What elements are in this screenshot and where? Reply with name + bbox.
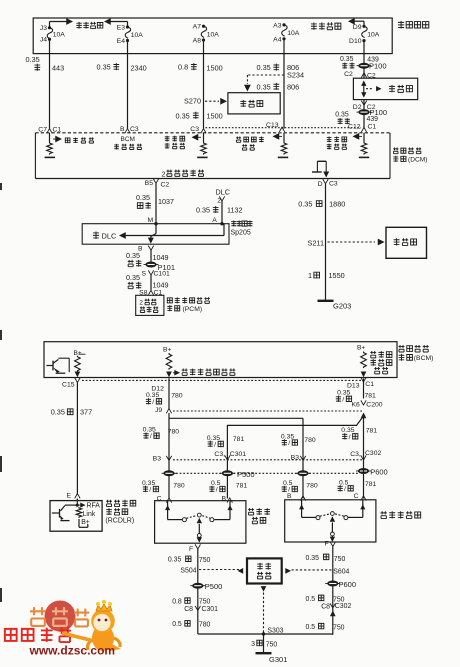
svg-text:C3: C3 bbox=[130, 126, 139, 133]
watermark orange arrow/pen bbox=[62, 633, 121, 651]
svg-text:0.8: 0.8 bbox=[178, 63, 188, 72]
wire from box to P100 lower bbox=[363, 100, 365, 129]
svg-text:J9: J9 bbox=[155, 407, 162, 414]
svg-text:750: 750 bbox=[266, 641, 278, 648]
svg-text:(RCDLR): (RCDLR) bbox=[105, 518, 134, 525]
BCM label 车身电控单元(DCM) bbox=[393, 147, 427, 163]
svg-text:780: 780 bbox=[173, 483, 185, 490]
pin E bbox=[67, 492, 81, 499]
svg-text:C2: C2 bbox=[344, 71, 353, 78]
svg-text:1500: 1500 bbox=[207, 111, 223, 120]
svg-text:A7: A7 bbox=[193, 24, 202, 31]
wire label 0.5黑 780 bbox=[172, 621, 210, 629]
svg-text:G203: G203 bbox=[333, 302, 351, 311]
label 插头组件 Sp205 bbox=[231, 220, 253, 236]
wire label 0.35 深绿 / 1049 (upper) bbox=[126, 251, 169, 267]
svg-text:0.5: 0.5 bbox=[172, 621, 182, 628]
svg-text:10A: 10A bbox=[131, 32, 144, 39]
svg-text:B: B bbox=[120, 126, 125, 133]
svg-text:1500: 1500 bbox=[207, 64, 223, 73]
box 配线图 (S211) bbox=[386, 227, 427, 258]
BCM2 connector row (dashed, below bottom edge) bbox=[82, 379, 361, 381]
pin F (right switch) bbox=[325, 541, 336, 548]
svg-text:0.35: 0.35 bbox=[97, 63, 111, 72]
bottom junction wire (left F to right F) bbox=[198, 633, 333, 635]
svg-text:C12: C12 bbox=[348, 123, 361, 130]
wire to right switch pin C; label 0.5 红/黑 781 bbox=[338, 465, 377, 499]
svg-text:C3: C3 bbox=[329, 181, 338, 188]
dashed vertical to S303 bbox=[263, 593, 265, 634]
pin C3 (connector C302) bbox=[350, 450, 381, 460]
wire label 0.5黑 750 (low) bbox=[306, 623, 345, 631]
arrow: E3 fuse to 至配线图 (left header) bbox=[104, 18, 128, 27]
pin C8 / connector C302 with up arrow bbox=[321, 603, 351, 616]
BCM2 input resistor B+ (车门锁开关输入) bbox=[163, 346, 235, 377]
svg-text:1550: 1550 bbox=[329, 271, 345, 280]
wire to P101 (0.35 深绿 1049) bbox=[150, 250, 152, 262]
svg-text:780: 780 bbox=[304, 437, 316, 444]
watermark mascot bbox=[88, 600, 121, 651]
svg-text:439: 439 bbox=[367, 116, 379, 123]
svg-text:750: 750 bbox=[334, 556, 346, 563]
svg-text:377: 377 bbox=[80, 408, 92, 417]
svg-text:/: / bbox=[150, 433, 152, 440]
splice S504 with dashed line to ground-circuit box bbox=[180, 568, 240, 575]
label 左门锁开关 bbox=[248, 508, 270, 524]
svg-text:E3: E3 bbox=[117, 25, 126, 32]
svg-text:0.35: 0.35 bbox=[126, 251, 140, 260]
BCM input: 点火信号输入 w/ resistor bbox=[165, 133, 208, 158]
svg-text:C3,: C3, bbox=[350, 451, 361, 458]
svg-text:781: 781 bbox=[233, 436, 245, 443]
pin D/C3 bbox=[318, 179, 338, 188]
svg-text:M: M bbox=[148, 217, 154, 224]
svg-text:/: / bbox=[216, 487, 218, 494]
wire label 0.35紫 806 (below S234) bbox=[257, 82, 300, 91]
svg-text:/: / bbox=[152, 399, 154, 406]
svg-text:781: 781 bbox=[365, 393, 377, 400]
wire label 0.8黑 750 bbox=[172, 598, 210, 606]
wire label 0.35 红/黑 780 (below P500) bbox=[142, 480, 185, 494]
svg-text:B+: B+ bbox=[163, 346, 171, 353]
wire label 0.35紫 1500 (lower) bbox=[176, 111, 223, 120]
svg-text:www.dzsc.com: www.dzsc.com bbox=[29, 643, 116, 657]
pins C and B of left switch bbox=[157, 495, 233, 502]
svg-text:0.5: 0.5 bbox=[306, 596, 316, 603]
svg-text:S211: S211 bbox=[308, 238, 325, 247]
svg-text:/: / bbox=[344, 486, 346, 493]
svg-text:C1: C1 bbox=[53, 127, 62, 134]
grommet P600 (bottom) bbox=[325, 580, 356, 589]
svg-text:BCM: BCM bbox=[121, 136, 135, 143]
svg-text:A4: A4 bbox=[273, 36, 282, 43]
svg-text:P600: P600 bbox=[370, 467, 388, 476]
svg-text:C302: C302 bbox=[335, 603, 352, 610]
wire label 1黑 1550 bbox=[308, 271, 345, 280]
box 配线图 (to wiring diagram, S270/S234) bbox=[228, 93, 280, 114]
svg-text:(DCM): (DCM) bbox=[408, 157, 427, 164]
wire label 0.35 橙/黑 781 (x228) bbox=[207, 435, 245, 449]
svg-text:/: / bbox=[214, 441, 216, 448]
svg-text:10A: 10A bbox=[367, 32, 380, 39]
wire label 0.35 粉红 / 439 (lower) bbox=[335, 112, 378, 125]
grommet P500 (x228) bbox=[220, 470, 255, 479]
svg-text:0.35: 0.35 bbox=[136, 193, 150, 202]
connector D2/C2 pins bbox=[353, 101, 376, 111]
label 至配线图 (right) bbox=[311, 22, 341, 29]
label 遥控门模接收器(RCDLR) bbox=[105, 500, 135, 525]
wire B5 to M node (0.35 浅绿 1037) bbox=[155, 184, 157, 224]
splice S211 with dashed arrow to 配线图 bbox=[308, 238, 385, 247]
svg-text:S504: S504 bbox=[180, 568, 196, 575]
svg-text:E: E bbox=[67, 492, 72, 499]
svg-text:750: 750 bbox=[199, 557, 211, 564]
svg-text:750: 750 bbox=[333, 624, 345, 631]
wire to S8 (0.35 深绿 1049 lower) bbox=[150, 275, 152, 290]
svg-text:780: 780 bbox=[199, 622, 211, 629]
grommet P600 (x363) bbox=[356, 467, 388, 476]
pin label D13/C1, 0.35 橙/黑 781 bbox=[336, 377, 376, 403]
pin C15 bbox=[62, 378, 80, 389]
BCM2 internal transistor (C15 driver) bbox=[46, 358, 69, 373]
svg-text:J4: J4 bbox=[40, 37, 47, 44]
branch wire (J9) right to x303 down to right switch pin B bbox=[169, 418, 303, 498]
node M bbox=[148, 217, 158, 226]
grommet row dashed line (P500-P600) bbox=[176, 472, 358, 474]
elbow wire from K6 junction left to x227.4 then down to left switch pin B bbox=[227, 416, 363, 499]
DLC connector pin 2 bbox=[216, 187, 230, 223]
svg-text:780: 780 bbox=[168, 429, 180, 436]
pin S8/C1 bbox=[139, 289, 162, 296]
wire D to ground G203 (0.35黑 1880 / 1黑 1550) bbox=[325, 184, 327, 300]
svg-text:781: 781 bbox=[365, 481, 377, 488]
svg-text:1880: 1880 bbox=[329, 199, 345, 208]
svg-text:780: 780 bbox=[306, 483, 318, 490]
splice S270, dashed arrow to 配线图 box bbox=[184, 97, 227, 106]
svg-text:C3: C3 bbox=[190, 126, 199, 133]
PCM box 2级串行数据 bbox=[136, 295, 164, 315]
svg-text:C302: C302 bbox=[365, 450, 381, 457]
grommet P500 (left wire) bbox=[162, 470, 177, 476]
svg-text:(PCM): (PCM) bbox=[183, 306, 203, 313]
BCM box 2 (车身电控单元 BCM) bbox=[44, 342, 397, 378]
wire D13 to K6 bbox=[363, 378, 365, 398]
wire label 0.35黑 750 (right) bbox=[306, 554, 346, 563]
RCDLR internal transistor bbox=[52, 499, 79, 521]
svg-text:S604: S604 bbox=[333, 568, 349, 575]
svg-text:0.8: 0.8 bbox=[172, 598, 182, 605]
wire: fuse D10 down to P100 / C2 (0.35 粉红 439) bbox=[363, 54, 365, 78]
wire label 0.8紫 1500 (upper) bbox=[178, 63, 223, 73]
svg-text:RFA: RFA bbox=[87, 503, 101, 510]
svg-text:C200: C200 bbox=[366, 401, 382, 408]
node A bbox=[212, 217, 223, 226]
svg-text:750: 750 bbox=[199, 599, 211, 606]
pin C3 (ignition) bbox=[190, 126, 206, 133]
label 右门锁开关 bbox=[381, 511, 421, 518]
connector C301/C302 dashed row bbox=[173, 459, 364, 461]
svg-text:C: C bbox=[354, 493, 359, 500]
svg-text:C13: C13 bbox=[266, 122, 279, 129]
pin B (below 至DLC box) bbox=[138, 246, 154, 253]
svg-text:D13: D13 bbox=[347, 383, 360, 390]
svg-text:0.35: 0.35 bbox=[257, 63, 271, 72]
svg-text:P500: P500 bbox=[237, 470, 255, 479]
label 至DLC with left arrow bbox=[93, 224, 224, 241]
svg-text:1: 1 bbox=[308, 271, 312, 280]
fuse A7/A8 10A bbox=[193, 24, 220, 54]
svg-text:C7: C7 bbox=[38, 127, 47, 134]
svg-text:2: 2 bbox=[139, 300, 143, 307]
svg-text:F: F bbox=[189, 546, 193, 553]
svg-text:F: F bbox=[325, 541, 329, 548]
watermark 维库一下 red text bbox=[5, 627, 71, 642]
svg-text:D10: D10 bbox=[349, 38, 362, 45]
svg-text:2: 2 bbox=[162, 169, 166, 178]
svg-text:10A: 10A bbox=[287, 30, 300, 37]
svg-text:C101: C101 bbox=[154, 270, 170, 277]
svg-text:780: 780 bbox=[171, 393, 183, 400]
svg-text:806: 806 bbox=[287, 82, 299, 91]
grommet P500 (bottom) bbox=[190, 582, 222, 591]
connector S/C101 bbox=[141, 270, 170, 277]
pin B3 (left, connector C301) bbox=[153, 455, 172, 462]
pin K6 / connector C200 bbox=[352, 400, 383, 408]
svg-text:B5: B5 bbox=[145, 180, 154, 187]
fuse J3/J4 10A bbox=[40, 25, 65, 54]
BCM input: 信号输入 w/ resistor bbox=[45, 133, 94, 158]
dashed line to S604 bbox=[292, 569, 332, 571]
wire label 0.35橙 2340 bbox=[97, 63, 147, 73]
pins B and C of right switch bbox=[287, 493, 366, 501]
svg-text:B: B bbox=[287, 493, 292, 500]
svg-text:DLC: DLC bbox=[216, 187, 230, 196]
svg-text:B3: B3 bbox=[291, 454, 300, 461]
svg-text:10A: 10A bbox=[53, 32, 66, 39]
svg-text:0.35: 0.35 bbox=[298, 199, 312, 208]
svg-text:S303: S303 bbox=[267, 627, 283, 634]
svg-text:0.35: 0.35 bbox=[146, 392, 159, 399]
BCM input: BCM供电输入 (down arrow) bbox=[114, 136, 142, 149]
fuse E3/E4 10A bbox=[117, 25, 144, 54]
pin C12/C1 bbox=[348, 123, 376, 132]
svg-text:0.35: 0.35 bbox=[126, 273, 140, 282]
svg-text:C1: C1 bbox=[368, 123, 377, 130]
BCM2 input resistor B+ (车门未锁开关输入) bbox=[357, 345, 392, 378]
svg-text:C15: C15 bbox=[62, 382, 75, 389]
label 至配线图 (left) bbox=[76, 22, 102, 29]
watermark 找芯片 outlined text with red circle bbox=[30, 601, 89, 632]
svg-text:S270: S270 bbox=[184, 97, 201, 106]
wire label 0.35黑 1880 bbox=[298, 199, 345, 208]
svg-text:0.5: 0.5 bbox=[306, 624, 316, 631]
wire label 0.35紫 1132 bbox=[196, 205, 242, 214]
wire label 0.5黑 750 (mid) bbox=[306, 595, 345, 603]
fuse box label 熔断器盒 bbox=[398, 21, 429, 29]
svg-text:0.35: 0.35 bbox=[26, 55, 40, 64]
svg-text:0.35: 0.35 bbox=[168, 557, 182, 564]
splice S303 and wire to G301 (3黑 750) bbox=[251, 627, 284, 652]
svg-text:0.35: 0.35 bbox=[335, 112, 349, 119]
svg-text:1049: 1049 bbox=[153, 281, 169, 290]
svg-text:P600: P600 bbox=[339, 580, 357, 589]
svg-text:D9: D9 bbox=[353, 24, 362, 31]
splice S234, dashed branch down into 配线图 box bbox=[244, 71, 304, 92]
svg-text:Link: Link bbox=[83, 511, 96, 518]
svg-text:C301: C301 bbox=[202, 606, 219, 613]
svg-text:P100: P100 bbox=[369, 62, 387, 71]
left switch internals bbox=[165, 501, 233, 543]
svg-text:0.35: 0.35 bbox=[196, 205, 210, 214]
BCM2 label 车身电控单元(BCM) bbox=[399, 345, 434, 362]
arrow: D9 fuse to 至配线图 (right header) bbox=[348, 18, 364, 26]
wire label 0.35 橙/黑 781 (x363) bbox=[341, 427, 377, 441]
svg-text:/: / bbox=[149, 487, 151, 494]
connector C2/C2 pins bbox=[344, 71, 376, 79]
splice box 至DLC (插头组件 Sp205) bbox=[82, 224, 229, 245]
arrows out of ground-circuit box bbox=[238, 568, 292, 592]
pin B/C3 bbox=[120, 126, 139, 134]
svg-text:C301: C301 bbox=[230, 451, 246, 458]
pin C7/C1 bbox=[38, 127, 61, 134]
left door lock switch box 左门锁开关 bbox=[155, 501, 246, 544]
svg-text:/: / bbox=[342, 396, 344, 403]
fuse A3/A4 10A bbox=[273, 22, 300, 53]
ground G301 bbox=[256, 653, 288, 664]
wire below K6 with up arrow bbox=[361, 413, 367, 466]
wire label 0.35 红/黑 780 (x303) bbox=[281, 433, 316, 447]
wire J9 down to left switch pin C, with branch to right switch bbox=[168, 413, 170, 499]
label 动力系统电控单元(PCM) bbox=[167, 297, 209, 313]
right door lock switch box 右门锁开关 bbox=[285, 500, 376, 542]
wire label 0.35 红/黑 780 (x169) bbox=[143, 427, 180, 441]
watermark www.dzsc.com bbox=[29, 643, 116, 657]
right switch internals bbox=[299, 500, 365, 542]
svg-text:0.35: 0.35 bbox=[51, 408, 65, 417]
svg-text:C8: C8 bbox=[184, 606, 193, 613]
svg-text:1049: 1049 bbox=[153, 253, 169, 262]
grommet P100 (lower) bbox=[357, 108, 388, 117]
svg-text:/: / bbox=[288, 440, 290, 447]
grommet P100 (upper) bbox=[357, 62, 387, 71]
BCM input: 曲轴信号输入 w/ resistor bbox=[236, 133, 288, 158]
BCM internal driver symbol for pin D bbox=[312, 161, 329, 177]
svg-text:/: / bbox=[349, 434, 351, 441]
box 配线图 (D9/D10 branch) with double arrow bbox=[353, 78, 417, 99]
fuse box (熔断器盒) outline bbox=[33, 18, 392, 54]
svg-text:S234: S234 bbox=[287, 71, 304, 80]
wire label 0.35黑 750 (left) bbox=[168, 556, 211, 564]
svg-text:0.35: 0.35 bbox=[306, 555, 320, 562]
svg-text:(BCM): (BCM) bbox=[414, 355, 434, 362]
svg-text:781: 781 bbox=[366, 428, 378, 435]
fuse D9/D10 10A bbox=[349, 24, 380, 54]
pin label D12 / 0.35 红/黑 780 bbox=[146, 386, 183, 406]
left-edge scan artifacts (decorative) bbox=[0, 183, 2, 602]
svg-text:781: 781 bbox=[236, 483, 248, 490]
svg-text:B+: B+ bbox=[357, 345, 365, 352]
wire F(left) down to bottom junction bbox=[197, 549, 199, 634]
svg-text:3: 3 bbox=[251, 641, 255, 648]
svg-text:D: D bbox=[318, 181, 323, 188]
svg-text:0.35: 0.35 bbox=[340, 56, 354, 63]
svg-text:2340: 2340 bbox=[131, 64, 147, 73]
svg-text:0.35: 0.35 bbox=[257, 82, 271, 91]
grommet P101 bbox=[144, 262, 176, 273]
svg-text:C2: C2 bbox=[161, 182, 170, 189]
wire label 0.35 深绿 / 1049 (lower) bbox=[126, 273, 169, 290]
arrow: J3 fuse to 至配线图 (left header) bbox=[50, 18, 74, 28]
BCM box (车身电控单元 DCM) bbox=[35, 133, 390, 179]
svg-text:0.35: 0.35 bbox=[176, 111, 190, 120]
wire label 0.5 红/黑 780 (below) bbox=[282, 480, 318, 494]
connector row (dotted) between C3 and C12 pins bbox=[206, 127, 362, 129]
grommet P600 (x303) bbox=[296, 470, 311, 476]
pin C8 / connector C301 bbox=[184, 606, 218, 613]
wire: fuse E4 to BCM pin B/C3 (0.35橙 2340) bbox=[127, 54, 129, 129]
pin C13 bbox=[266, 122, 285, 132]
wire: fuse A4 to BCM pin C13 (0.35紫 806), with S234 tap bbox=[283, 54, 285, 129]
svg-text:DLC: DLC bbox=[102, 232, 117, 241]
wire label 0.35 浅绿 / 1037 bbox=[136, 193, 174, 209]
svg-text:G301: G301 bbox=[269, 655, 287, 664]
splice S604 bbox=[333, 568, 349, 575]
wire M down through box with arrow bbox=[148, 224, 156, 244]
svg-text:K6: K6 bbox=[352, 401, 361, 408]
ground-circuit box 接地电路 bbox=[247, 558, 282, 583]
RCDLR labels RFA Link B+ and resistor bbox=[76, 502, 100, 527]
svg-text:A8: A8 bbox=[193, 38, 202, 45]
svg-text:C3,: C3, bbox=[214, 451, 225, 458]
wire label 0.5 红/黑 781 (below P500 x228) bbox=[209, 480, 247, 494]
svg-text:A3: A3 bbox=[273, 22, 282, 29]
svg-text:443: 443 bbox=[52, 64, 64, 73]
label 2级串行数据 (in BCM) bbox=[162, 169, 204, 178]
svg-text:1037: 1037 bbox=[158, 197, 174, 206]
svg-text:S: S bbox=[141, 270, 146, 277]
svg-text:B3: B3 bbox=[153, 455, 162, 462]
svg-text:C8: C8 bbox=[321, 604, 330, 611]
wire F(right) down to bottom junction bbox=[332, 547, 334, 635]
wire label 0.35 黄 / 443 bbox=[26, 55, 65, 72]
wire label 0.35 粉红 / 439 (upper) bbox=[340, 56, 379, 69]
ground G203 bbox=[318, 301, 352, 311]
svg-text:Sp205: Sp205 bbox=[231, 229, 251, 236]
svg-text:A: A bbox=[212, 217, 217, 224]
wire C15 to E (0.35黑 377) bbox=[76, 383, 78, 495]
svg-text:P500: P500 bbox=[205, 582, 223, 591]
svg-text:B+: B+ bbox=[81, 519, 90, 526]
svg-text:C1: C1 bbox=[365, 381, 374, 388]
pin C3 (connector C301) bbox=[214, 451, 246, 460]
wire label 0.35黑 377 bbox=[51, 408, 92, 417]
RFA receiver box (RCDLR) bbox=[50, 501, 102, 532]
svg-text:1132: 1132 bbox=[227, 205, 242, 214]
wire D12 to J9 bbox=[168, 378, 170, 409]
svg-text:10A: 10A bbox=[207, 31, 220, 38]
svg-text:J3: J3 bbox=[40, 25, 47, 32]
BCM input: 点火信号输入 (right) w/ resistor bbox=[327, 133, 369, 158]
pin J9 on connector C200 row bbox=[155, 407, 172, 414]
wire label 0.35紫 806 (above S234) bbox=[257, 63, 300, 72]
BCM2 pull-up resistor B+ (C15) bbox=[74, 350, 86, 377]
pin B5/C2 bbox=[145, 179, 170, 189]
connector C200 dashed row bbox=[173, 410, 363, 412]
wire: fuse J4 to BCM pin C7/C1 (0.35 黄 443) bbox=[49, 54, 51, 129]
svg-text:E4: E4 bbox=[117, 38, 126, 45]
pin B3 (right, connector C302) bbox=[291, 454, 306, 461]
wire: fuse A8 to BCM pin C3 (0.8紫 1500), with S270 tap bbox=[203, 54, 205, 129]
